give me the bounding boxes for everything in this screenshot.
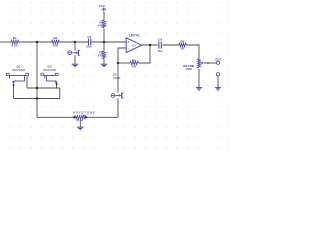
svg-text:2N2369: 2N2369	[12, 68, 25, 72]
wire feedback resistor run	[118, 62, 130, 64]
wire link riser	[59, 88, 61, 99]
svg-text:LM741: LM741	[129, 34, 140, 38]
svg-text:R1: R1	[13, 36, 17, 40]
junction Q1 arrow	[13, 84, 15, 86]
wire transistor link upper	[27, 87, 60, 89]
junction bias	[103, 41, 105, 43]
svg-text:2N2369: 2N2369	[43, 68, 56, 72]
junction wiper wire	[207, 62, 209, 64]
wire C1 branch	[74, 42, 76, 50]
svg-text:C2: C2	[87, 35, 91, 39]
op-amp U1 LM741	[126, 38, 141, 53]
svg-text:C4: C4	[158, 37, 162, 41]
capacitor C2 series coupling	[89, 39, 91, 46]
capacitor C1 electrolytic to ground	[68, 50, 80, 56]
svg-text:VCC: VCC	[99, 4, 106, 8]
svg-text:10u: 10u	[157, 49, 162, 53]
svg-text:R5: R5	[132, 59, 136, 63]
wire transistor link lower	[14, 98, 60, 100]
svg-text:47K: 47K	[98, 24, 104, 28]
junction feedback node	[117, 62, 119, 64]
svg-text:R2: R2	[53, 36, 57, 40]
wire node-A vertical	[36, 42, 38, 117]
wire wiper to jack	[204, 62, 217, 64]
svg-text:10K: 10K	[52, 43, 58, 47]
capacitor C4 output	[159, 41, 161, 48]
junction clip upper	[36, 87, 38, 89]
resistor R4 bias lower	[102, 51, 105, 59]
ground C1	[72, 64, 79, 67]
wire gain trim ground tap	[79, 120, 81, 127]
svg-text:OUT: OUT	[215, 57, 222, 61]
svg-text:-: -	[128, 47, 129, 51]
junction trim left	[73, 116, 75, 118]
svg-text:+: +	[128, 41, 130, 45]
resistor R6 output	[179, 43, 186, 46]
resistor R5 feedback	[130, 61, 138, 64]
ground pot	[196, 88, 202, 91]
resistor R1 4.7K	[11, 40, 19, 43]
wire bias chain	[103, 12, 105, 20]
wire Q2 arrow lead	[56, 84, 58, 88]
wire Q2 left stub	[44, 76, 46, 79]
resistor R2 10K	[52, 40, 60, 43]
svg-text:4.7K: 4.7K	[11, 43, 18, 47]
wire Q1 left stub	[9, 76, 11, 79]
svg-text:33n: 33n	[86, 44, 91, 48]
wire Q1 right lead	[26, 76, 28, 88]
svg-text:R6: R6	[180, 39, 184, 43]
junction C1 branch	[74, 41, 76, 43]
terminal jack sleeve	[216, 73, 219, 76]
ground gain trim	[77, 127, 84, 130]
ground bias	[101, 64, 108, 67]
wire pot bottom	[198, 69, 200, 88]
junction trim right	[85, 116, 87, 118]
wire bottom rail	[37, 116, 74, 118]
wire op-amp output rail	[142, 44, 158, 46]
svg-text:10uF: 10uF	[113, 76, 120, 80]
svg-text:47K: 47K	[98, 54, 104, 58]
wire jack sleeve	[217, 76, 219, 88]
svg-text:100K: 100K	[185, 67, 193, 71]
junction Q2 leads	[56, 83, 58, 85]
junction node A	[36, 41, 38, 43]
junction op-amp output	[149, 44, 151, 46]
resistor R3 bias upper	[102, 20, 105, 28]
svg-text:U1: U1	[132, 44, 136, 48]
junction clip lower	[36, 97, 38, 99]
svg-text:1M: 1M	[132, 64, 137, 68]
ground jack	[215, 88, 221, 91]
wire Q1 arrow lead	[13, 85, 15, 98]
wire feedback column	[117, 98, 119, 117]
wire main signal	[0, 12, 218, 127]
